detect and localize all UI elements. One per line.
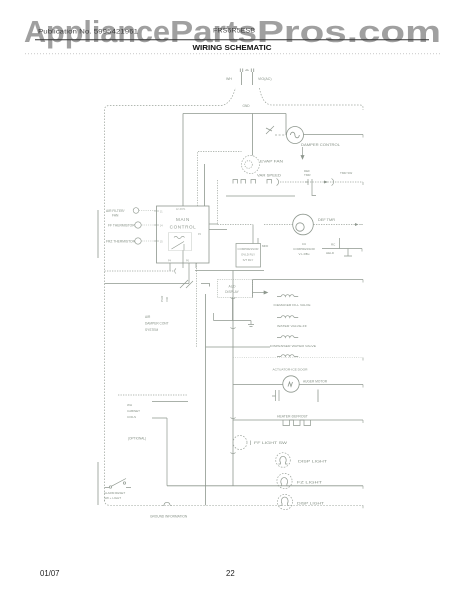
svg-text:AUD: AUD [229,285,237,289]
svg-text:COMPRESSOR: COMPRESSOR [293,247,316,251]
svg-text:WIRING SCHEMATIC: WIRING SCHEMATIC [193,43,273,52]
wire mid horizontal [226,195,295,197]
fz light lamp [277,473,292,488]
control board box [157,206,210,263]
svg-text:WH: WH [127,403,132,407]
main bus A [232,271,234,486]
wire compressor right dashed with arrow [314,224,356,226]
svg-text:HELD: HELD [326,251,335,255]
svg-text:FF THERMISTOR: FF THERMISTOR [108,224,135,228]
svg-text:VAR SPEED: VAR SPEED [257,174,282,178]
svg-text:TMR: TMR [304,173,311,177]
svg-text:COMPRESSOR: COMPRESSOR [238,247,259,251]
wire dashed drop to compressor relay [217,180,219,225]
wire dashed control to compressor [218,224,254,226]
wire heater row [233,419,363,421]
control board squiggle [174,236,185,238]
cabinet outline plug bump right [260,88,364,110]
wire solid left row segment 2 [201,284,210,287]
svg-text:DAMPER CONT: DAMPER CONT [145,322,169,326]
run capacitor [322,238,362,256]
svg-text:WH: WH [226,77,232,81]
svg-text:ACTUATOR-ICE DOOR: ACTUATOR-ICE DOOR [273,368,309,372]
svg-text:VIO: VIO [165,296,169,302]
wire drop to control board pin 1 [182,114,184,207]
right edge hooks [359,135,363,509]
svg-text:V.L.RBu: V.L.RBu [299,252,310,256]
wire y347 [206,346,271,348]
evap fan motor [242,156,260,174]
svg-text:Publication No. 5995421961: Publication No. 5995421961 [38,29,139,36]
wire dash to damper motor [275,134,287,136]
svg-text:FF LIGHT SW: FF LIGHT SW [254,441,287,445]
wire auger row [233,384,363,386]
control board bottom pins [170,251,196,269]
wire drop to damper motor [285,114,287,136]
svg-text:AIR: AIR [145,315,151,319]
arrow on defrost run [324,181,328,184]
svg-text:FZ LIGHT: FZ LIGHT [297,481,322,485]
wire drop to evap fan [252,114,254,156]
lead air filter fan [139,210,157,212]
wire dashed left row [105,270,175,272]
FF thermistor symbol [135,222,141,228]
svg-text:FRZ THERMISTOR: FRZ THERMISTOR [106,240,136,244]
svg-text:AIR FILTER/: AIR FILTER/ [106,209,125,213]
wire into relay box [253,225,258,244]
ground wire bottom left [97,462,99,505]
compressor motor [293,214,314,235]
wire below audio display to ground [214,298,255,327]
wire solid left row [105,283,190,285]
arrow below damper motor [301,147,304,159]
connector hooks on bus A [231,298,236,454]
svg-text:MAIN: MAIN [176,217,190,222]
ff light lamp [276,453,291,468]
wire solid cabinet row [152,401,188,403]
svg-text:VIO(AC): VIO(AC) [258,77,272,81]
svg-text:OVLD RLY: OVLD RLY [241,253,255,257]
svg-text:01/07: 01/07 [40,569,60,578]
solenoid coil 2 [277,316,298,318]
svg-text:MFD: MFD [262,244,268,248]
plug prong left [240,69,242,86]
svg-text:DISP LIGHT: DISP LIGHT [297,502,324,506]
cabinet outline left side [105,106,222,502]
solenoid coil 3 [277,336,298,338]
svg-text:AUGER MOTOR: AUGER MOTOR [303,380,328,384]
plug prong right [251,69,253,86]
plug ground prong [246,69,249,72]
connector row [233,179,279,186]
cabinet outline bottom [105,500,364,505]
lead ff thermistor [142,224,157,226]
disp light lamp [277,494,292,509]
wire dashed mid vertical [196,263,198,347]
bottom fuse [162,502,172,505]
wire right row y279 [253,279,364,281]
svg-text:ALARM RESET: ALARM RESET [104,491,125,495]
svg-text:COILS: COILS [127,415,136,419]
wire fz light row [167,485,363,487]
auger motor [283,376,299,392]
svg-text:CABINET: CABINET [127,409,140,413]
svg-text:SW + LIGHT: SW + LIGHT [104,496,121,500]
svg-text:ICEMAKER FILL VALVE: ICEMAKER FILL VALVE [274,303,311,307]
solenoid coil 4 [277,355,298,357]
wire drop from control to left row [170,263,189,284]
svg-text:HEATER-DEFROST: HEATER-DEFROST [277,415,308,419]
wire arrow from audio display [253,291,268,294]
svg-text:EVAP FAN: EVAP FAN [260,160,284,164]
control board relay switch [172,242,185,251]
svg-text:DISPLAY: DISPLAY [225,290,239,294]
ground wire left [97,210,99,258]
wire cabinet coils path [152,418,167,486]
svg-text:22: 22 [226,569,235,578]
alarm switch [105,479,132,489]
main bus B [205,294,207,505]
svg-text:Pros.com: Pros.com [257,15,441,49]
heater element [283,420,311,426]
FRZ thermistor symbol [135,238,141,244]
header rule [35,39,429,41]
connector hook [175,269,176,274]
dotted rule under title [25,53,440,55]
control board right pin wires [209,224,227,230]
svg-text:DAMPER CONTROL: DAMPER CONTROL [301,143,340,147]
svg-text:CONTROL: CONTROL [170,225,197,230]
svg-text:(OPTIONAL): (OPTIONAL) [128,437,146,441]
wire row y270 [195,270,264,272]
wire dashed cabinet row [118,394,188,396]
auger capacitor [272,390,279,401]
svg-text:GROUND INFORMATION: GROUND INFORMATION [150,515,188,519]
wire main top horizontal [183,113,286,115]
svg-text:GND: GND [243,104,251,108]
svg-text:DISPENSER WATER VALVE: DISPENSER WATER VALVE [270,344,316,348]
wire dashed defrost thermostat run [280,181,363,183]
audio display box [218,280,253,298]
cabinet outline plug bump left [221,88,236,106]
solenoid coil 1 [277,295,298,297]
svg-text:FRS6R5ESB: FRS6R5ESB [213,28,255,35]
svg-text:CU: CU [302,242,306,246]
fan symbol [133,208,139,214]
door switch diagonals [180,280,193,288]
wire drop to control board pin 2 (dashed) [198,152,242,207]
control board pin marks [154,211,159,241]
wire drop to control board pin 3 [204,164,206,206]
svg-text:WATER VALVE-FF: WATER VALVE-FF [277,324,307,328]
compressor relay box [236,244,261,268]
svg-text:TMR SW: TMR SW [340,171,352,175]
defrost thermostat [305,179,312,185]
svg-text:SYSTEM: SYSTEM [145,328,158,332]
svg-text:DEF TMR: DEF TMR [318,218,336,222]
wire damper motor to right edge [304,134,364,136]
svg-text:J2 J3 P1: J2 J3 P1 [176,208,186,211]
wire stub right of auger [317,390,319,403]
connector hook on defrost run [332,179,334,186]
light switch stub [250,441,252,446]
wire dotted y361 [233,357,363,359]
lead frz thermistor [142,240,157,242]
wire dashed through compressor [264,224,293,226]
damper motor M1 [287,127,304,144]
svg-text:PUR: PUR [160,295,164,302]
light switch dashed circle [233,436,247,450]
svg-text:DISP LIGHT: DISP LIGHT [298,460,327,464]
svg-text:S/T RLY: S/T RLY [243,258,254,262]
damper thermostat switch [266,126,274,134]
control board inner dotted box [169,233,192,251]
svg-text:FAN: FAN [112,214,119,218]
wire stub below defrost thermostat [312,185,316,196]
